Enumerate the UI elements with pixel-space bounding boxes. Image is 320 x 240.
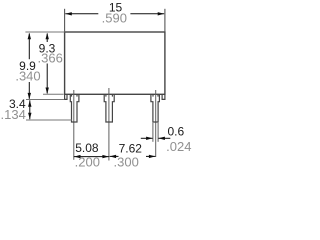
svg-text:.200: .200 — [75, 155, 100, 170]
svg-text:.300: .300 — [114, 155, 139, 170]
svg-text:5.08: 5.08 — [75, 141, 99, 155]
svg-text:.590: .590 — [102, 10, 127, 25]
svg-text:.024: .024 — [166, 139, 191, 154]
svg-text:.366: .366 — [38, 51, 63, 66]
svg-text:0.6: 0.6 — [167, 124, 184, 138]
svg-text:7.62: 7.62 — [119, 141, 143, 155]
svg-text:.340: .340 — [15, 69, 40, 84]
svg-text:.134: .134 — [1, 107, 26, 122]
